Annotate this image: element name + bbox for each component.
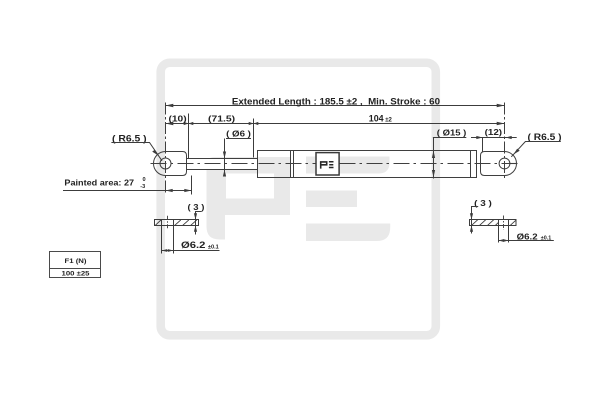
right plate hole edge lines	[498, 220, 500, 243]
watermark PE logo E bottom bar	[306, 224, 390, 242]
right plate hole centerline	[503, 216, 505, 230]
left plate hole edge lines	[161, 220, 163, 254]
svg-text:±0.1: ±0.1	[208, 244, 219, 250]
painted area dimension line	[63, 190, 192, 192]
svg-text:±0.1: ±0.1	[541, 236, 551, 242]
cylinder body	[258, 151, 477, 178]
svg-text:Extended Length : 185.5 ±2 ,: Extended Length : 185.5 ±2 , Min. Stroke…	[232, 97, 440, 107]
PE logo box on cylinder	[316, 153, 339, 175]
cylinder seam line 2	[293, 151, 295, 178]
right eyelet vertical centerline / extension line	[504, 103, 506, 180]
PE logo box E bars	[329, 162, 334, 168]
right eyelet hole	[499, 158, 510, 169]
extended length right arrowhead	[497, 104, 505, 107]
left eyelet hole	[160, 158, 171, 169]
right eyelet side view plate	[470, 220, 517, 226]
cylinder end cap line	[470, 151, 472, 178]
segment dimension line (10)(71.5)(104)	[166, 123, 505, 125]
main horizontal centerline	[151, 163, 521, 165]
svg-text:-3: -3	[140, 184, 145, 190]
watermark PE logo E middle bar	[306, 191, 357, 208]
left eyelet outer contour	[154, 152, 187, 176]
right eyelet outer contour	[481, 152, 517, 176]
svg-text:Ø6.2: Ø6.2	[181, 240, 205, 250]
left eyelet vertical centerline / extension line	[165, 103, 167, 194]
extension line x=253.5	[253, 119, 255, 158]
extended length dimension line	[166, 105, 505, 107]
PE logo box P glyph	[321, 162, 327, 169]
piston rod white fill	[187, 159, 258, 169]
svg-text:104: 104	[369, 114, 384, 124]
svg-text:F1 (N): F1 (N)	[65, 258, 87, 265]
svg-text:( 3 ): ( 3 )	[188, 203, 205, 212]
svg-text:(71.5): (71.5)	[208, 113, 235, 123]
F1 force table	[50, 252, 101, 278]
left eyelet side view plate	[155, 220, 199, 226]
right hole diameter dimension O6.2	[499, 240, 554, 242]
background frame	[161, 63, 436, 336]
piston rod bottom line	[187, 169, 258, 171]
right plate hatching	[472, 220, 517, 226]
double arrowhead at x=188	[184, 122, 189, 125]
piston rod top line	[187, 158, 258, 160]
svg-text:±2: ±2	[385, 117, 392, 123]
extension line for (12) at block start	[482, 138, 484, 153]
left plate hatching	[155, 220, 197, 226]
cylinder seam line 1	[290, 151, 292, 178]
svg-text:( Ø15 ): ( Ø15 )	[437, 127, 467, 137]
watermark PE logo P glyph	[207, 157, 291, 240]
svg-text:0: 0	[143, 177, 146, 183]
left plate hole centerline	[167, 216, 169, 230]
extension line x=188	[188, 114, 190, 159]
svg-text:( R6.5 ): ( R6.5 )	[528, 132, 562, 142]
svg-text:( R6.5 ): ( R6.5 )	[112, 133, 147, 143]
extended length left arrowhead	[166, 104, 174, 107]
painted area right extension line	[191, 176, 193, 195]
svg-text:(12): (12)	[485, 127, 503, 137]
arrowhead at left eyelet centerline	[166, 122, 174, 125]
left hole diameter dimension O6.2	[162, 250, 220, 252]
watermark PE logo E top bar	[306, 157, 390, 174]
svg-text:Painted area: 27: Painted area: 27	[64, 178, 134, 187]
double arrowhead at x=253.5	[249, 122, 254, 125]
svg-text:Ø6.2: Ø6.2	[517, 231, 538, 241]
svg-text:100 ±25: 100 ±25	[62, 271, 90, 278]
svg-text:( Ø6 ): ( Ø6 )	[226, 129, 251, 139]
svg-text:(10): (10)	[169, 113, 187, 123]
arrowhead at right eyelet centerline	[497, 122, 505, 125]
